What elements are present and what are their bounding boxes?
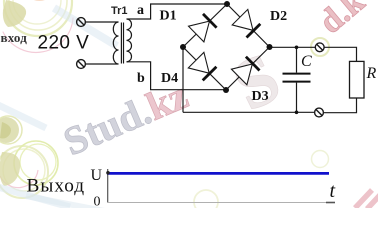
svg-text:вход: вход [1, 30, 28, 45]
svg-text:0: 0 [94, 195, 101, 209]
svg-text:U: U [91, 167, 103, 184]
svg-text:a: a [137, 3, 144, 18]
svg-text:D2: D2 [270, 9, 287, 24]
svg-text:b: b [137, 71, 145, 86]
svg-text:Tr1: Tr1 [111, 5, 128, 17]
svg-text:R: R [366, 65, 377, 82]
svg-text:Выход: Выход [27, 176, 86, 197]
svg-text:C: C [301, 53, 312, 70]
svg-text:D4: D4 [161, 71, 178, 86]
svg-text:D3: D3 [252, 89, 269, 104]
svg-text:D1: D1 [160, 9, 177, 24]
svg-text:t: t [330, 180, 336, 202]
svg-text:220 V: 220 V [38, 33, 90, 54]
